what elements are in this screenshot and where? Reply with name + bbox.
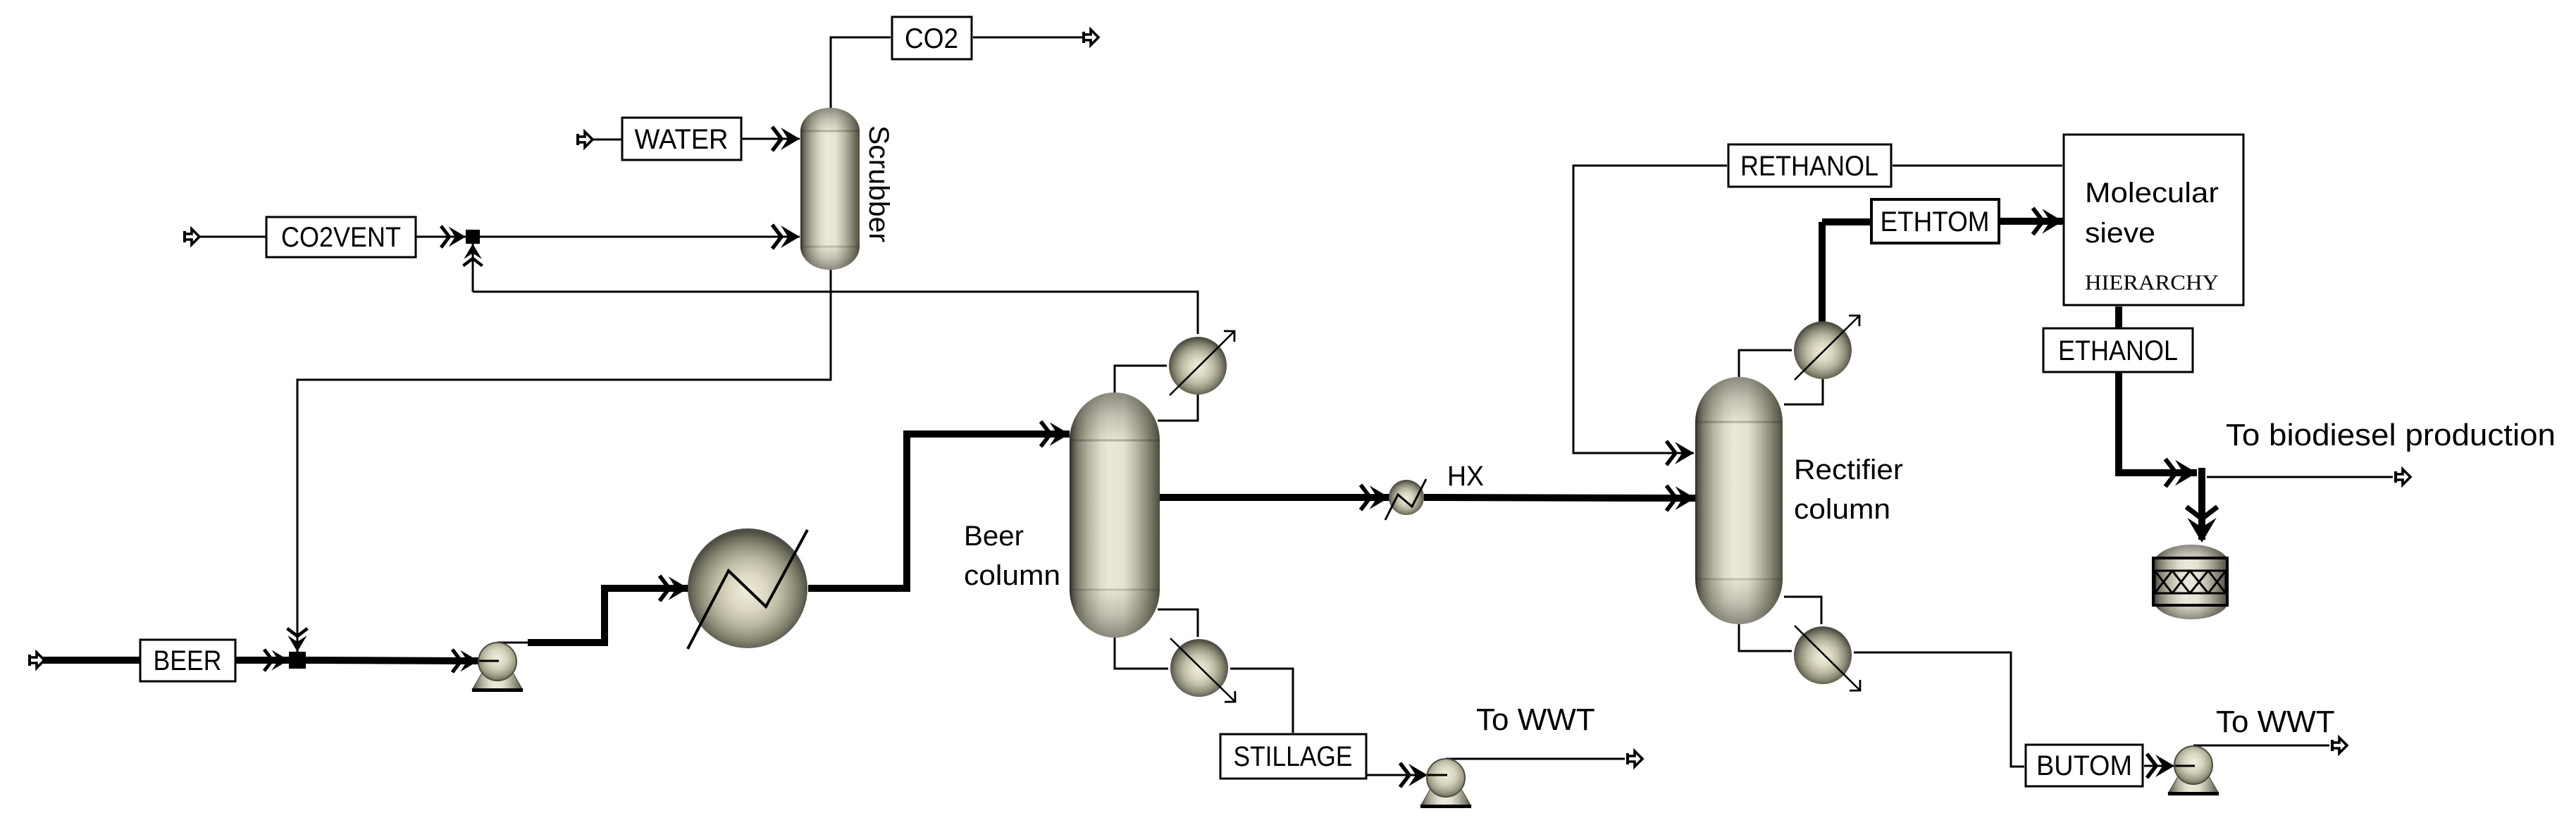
svg-text:sieve: sieve xyxy=(2085,218,2155,249)
svg-text:CO2VENT: CO2VENT xyxy=(281,222,401,253)
svg-text:HX: HX xyxy=(1447,461,1484,492)
svg-text:Molecular: Molecular xyxy=(2085,178,2219,209)
svg-text:ETHTOM: ETHTOM xyxy=(1881,206,1990,237)
svg-text:column: column xyxy=(964,560,1060,591)
svg-text:BUTOM: BUTOM xyxy=(2036,750,2132,781)
svg-text:Beer: Beer xyxy=(964,521,1024,552)
svg-text:To WWT: To WWT xyxy=(1476,702,1595,737)
svg-text:RETHANOL: RETHANOL xyxy=(1740,151,1878,182)
svg-text:BEER: BEER xyxy=(154,645,222,676)
svg-text:To WWT: To WWT xyxy=(2216,705,2335,739)
svg-text:To biodiesel production: To biodiesel production xyxy=(2226,418,2556,452)
svg-text:ETHANOL: ETHANOL xyxy=(2058,335,2178,366)
svg-text:HIERARCHY: HIERARCHY xyxy=(2085,270,2219,295)
svg-text:Scrubber: Scrubber xyxy=(863,125,894,242)
svg-text:Rectifier: Rectifier xyxy=(1794,454,1903,485)
svg-text:WATER: WATER xyxy=(635,124,729,155)
svg-text:column: column xyxy=(1794,494,1890,525)
svg-text:CO2: CO2 xyxy=(905,23,958,54)
svg-text:STILLAGE: STILLAGE xyxy=(1234,741,1353,772)
